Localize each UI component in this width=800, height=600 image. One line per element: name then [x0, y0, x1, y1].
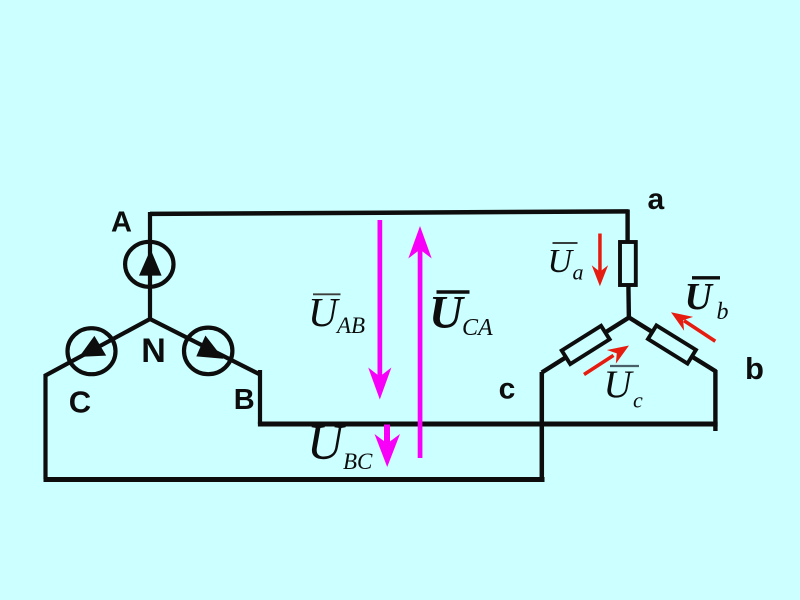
- svg-text:b: b: [717, 299, 729, 325]
- wire N to B (diagonal): [150, 319, 260, 375]
- phase winding B (circle): [184, 328, 232, 375]
- phase voltage arrow U_b (red, up-left): [671, 312, 715, 341]
- label U_a: [548, 243, 584, 285]
- svg-text:C: C: [69, 385, 91, 420]
- wire B vertical: [258, 370, 262, 424]
- svg-text:a: a: [647, 183, 664, 216]
- wire C to c (bottom line): [44, 477, 545, 482]
- wire phase A vertical (A terminal to node N): [148, 212, 152, 320]
- label U_AB: [308, 289, 365, 338]
- wire B to b (horizontal): [258, 422, 718, 427]
- EMF arrow in winding C: [79, 336, 106, 357]
- svg-text:CA: CA: [462, 315, 493, 341]
- svg-text:U: U: [604, 363, 635, 406]
- voltage arrow U_BC (magenta, short, down): [375, 425, 401, 468]
- resistor Zb: [648, 325, 696, 363]
- svg-text:c: c: [633, 388, 643, 413]
- label U_c: [604, 363, 644, 413]
- wire a resistor to star point: [626, 285, 631, 320]
- label U_b: [685, 276, 729, 325]
- resistor Za: [620, 242, 636, 285]
- svg-text:AB: AB: [335, 313, 365, 338]
- svg-text:a: a: [573, 260, 584, 285]
- phase voltage arrow U_a (red, down): [592, 234, 608, 287]
- phase voltage arrow U_c (red, up-right): [584, 346, 629, 375]
- wire star point to b: [629, 318, 716, 372]
- svg-text:U: U: [307, 414, 346, 470]
- EMF arrow in winding A: [139, 249, 162, 275]
- wire C vertical: [43, 374, 47, 479]
- svg-text:U: U: [429, 287, 465, 339]
- phase winding A (circle): [125, 242, 173, 287]
- wire c vertical: [540, 372, 545, 480]
- svg-text:U: U: [685, 276, 715, 318]
- wire A to a (top line): [150, 211, 629, 214]
- wire a vertical (top): [625, 210, 629, 244]
- svg-text:U: U: [308, 289, 340, 335]
- svg-text:BC: BC: [343, 449, 373, 474]
- wire star point to c: [542, 318, 629, 373]
- voltage arrow U_CA (magenta, up): [408, 226, 431, 458]
- label U_BC: [307, 414, 373, 475]
- svg-text:B: B: [234, 384, 255, 416]
- resistor Zc: [562, 326, 610, 364]
- label U_CA: [429, 287, 493, 342]
- svg-text:A: A: [111, 206, 132, 238]
- wire b vertical: [713, 370, 717, 431]
- voltage arrow U_AB (magenta, down): [368, 220, 391, 400]
- svg-text:b: b: [745, 351, 764, 386]
- svg-text:U: U: [548, 243, 575, 280]
- wire N to C (diagonal): [45, 319, 151, 376]
- phase winding C (circle): [68, 328, 116, 374]
- svg-text:c: c: [499, 373, 516, 406]
- svg-text:N: N: [141, 332, 166, 370]
- EMF arrow in winding B: [196, 336, 223, 359]
